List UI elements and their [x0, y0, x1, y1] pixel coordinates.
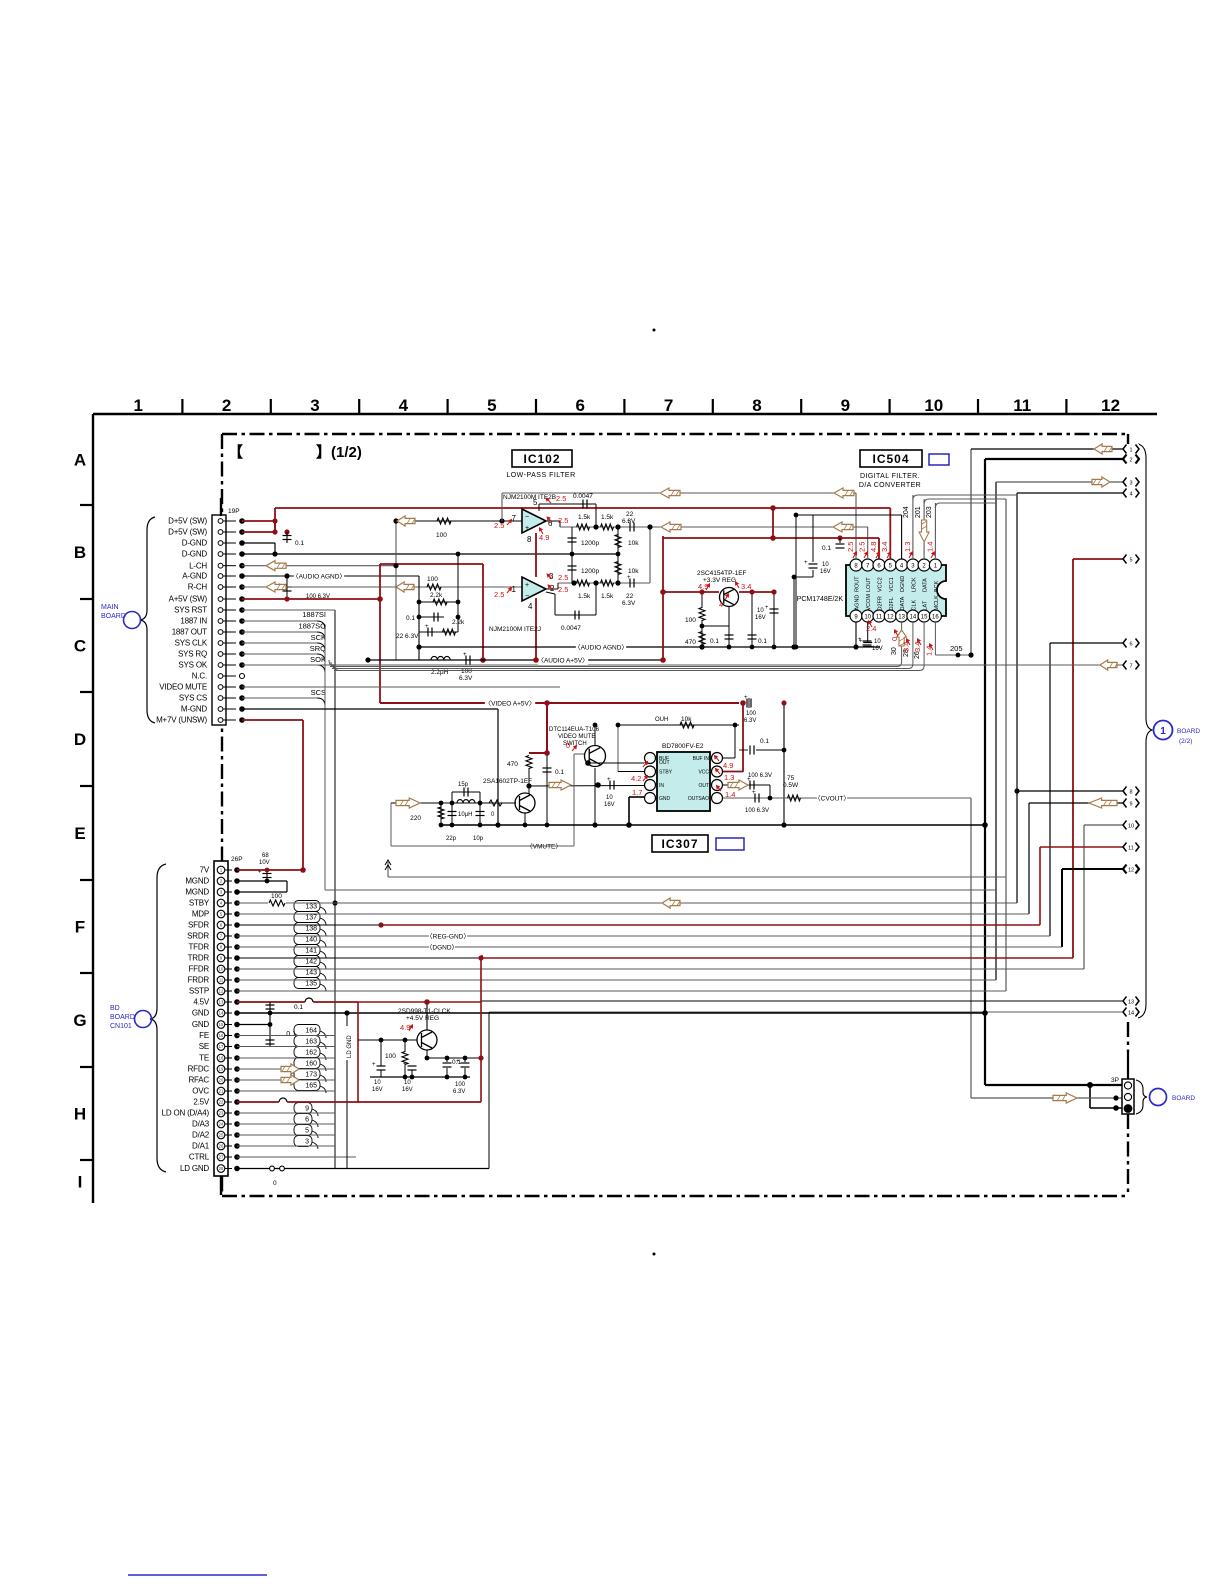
svg-text:0.1: 0.1	[710, 638, 719, 645]
svg-text:204: 204	[903, 506, 910, 518]
wire 0.1 e stub	[751, 592, 753, 647]
IC307 body BD7800FV	[657, 752, 710, 811]
svg-text:1200p: 1200p	[581, 568, 599, 575]
voltage pointer red	[895, 630, 899, 636]
pin circle GND	[217, 1021, 225, 1029]
pin circle OVC	[217, 1087, 225, 1095]
pin junction FRDR	[234, 977, 240, 983]
wire opamp supply red lower	[535, 598, 537, 660]
open junction LD GND	[270, 1166, 275, 1171]
border ruler left line	[92, 414, 94, 1203]
svg-text:11: 11	[1128, 845, 1134, 851]
wire 2.2k b	[419, 631, 458, 633]
net label VMUTE	[526, 841, 562, 851]
svg-text:0.1: 0.1	[555, 769, 564, 776]
wire node SSTP vertical	[1005, 499, 1007, 991]
pin circle LD GND	[217, 1165, 225, 1173]
wire dgnd already	[242, 553, 455, 555]
wire opamp2 to LOUT riser	[649, 527, 651, 583]
svg-text:RFDC: RFDC	[188, 1065, 210, 1074]
wire VMUTE long	[391, 845, 559, 847]
node connector point 7	[1123, 660, 1139, 670]
svg-text:4.8: 4.8	[869, 542, 878, 552]
node connector point 9	[1123, 798, 1139, 808]
junction fb	[593, 524, 598, 529]
pin junction SYS CS	[239, 695, 245, 701]
voltage pointer red	[725, 594, 729, 600]
wire hop 2.5V	[279, 1098, 287, 1104]
svg-text:D2FL: D2FL	[889, 597, 895, 610]
svg-text:+: +	[752, 790, 756, 796]
wire label 140	[294, 934, 326, 948]
svg-text:CLK: CLK	[911, 599, 917, 610]
pin circle D-GND	[218, 552, 223, 557]
svg-text:+: +	[372, 1062, 376, 1068]
wire VCOM stub	[867, 622, 869, 643]
wire loop y890	[325, 889, 996, 891]
svg-text:LAT: LAT	[923, 600, 929, 610]
wire VIDEO A+5V red rail	[380, 702, 739, 704]
pin circle R-CH	[218, 585, 223, 590]
pin circle SYS RQ	[218, 652, 223, 657]
capacitor 10 16V b	[863, 643, 872, 647]
IC307 spare box	[716, 838, 744, 850]
wire agnd cap stub	[286, 576, 288, 599]
pin junction TRDR	[234, 955, 240, 961]
voltage pointer red	[643, 776, 648, 781]
border ruler top line	[93, 413, 1157, 415]
svg-text:0: 0	[273, 1180, 277, 1187]
junction D+5V b	[272, 529, 277, 534]
pin circle FRDR	[217, 976, 225, 984]
wire reg emitter	[426, 1050, 428, 1058]
svg-text:100: 100	[427, 576, 438, 583]
wire SYS RST	[242, 609, 335, 611]
svg-text:10k: 10k	[628, 568, 639, 575]
pin circle TFDR	[217, 943, 225, 951]
junction 3P b	[1113, 1105, 1119, 1111]
pin circle STBY	[217, 899, 225, 907]
wire CLK down 28	[912, 622, 914, 664]
svg-text:100 6.3V: 100 6.3V	[748, 773, 772, 779]
svg-text:1.3: 1.3	[724, 773, 734, 782]
wire node3 vertical	[995, 482, 997, 980]
svg-text:MGND: MGND	[185, 877, 209, 886]
junction GND LDGND	[344, 1010, 349, 1015]
svg-text:4.9: 4.9	[723, 761, 733, 770]
wire dgnd drop	[795, 515, 797, 647]
svg-text:G: G	[73, 1011, 86, 1030]
svg-text:+: +	[403, 1062, 407, 1068]
svg-text:11: 11	[876, 615, 883, 621]
voltage pointer red	[717, 786, 722, 791]
svg-text:16: 16	[219, 1033, 224, 1038]
wire 204 bend	[913, 495, 1017, 500]
svg-text:4: 4	[399, 396, 409, 415]
svg-text:6.3V: 6.3V	[744, 718, 756, 724]
wire red link to 470	[529, 752, 547, 754]
pin circle RFAC	[217, 1076, 225, 1084]
svg-text:1887SO: 1887SO	[298, 622, 326, 631]
transistor Q 2SA1602	[515, 793, 535, 813]
wire node6 horizontal	[1050, 642, 1124, 644]
wire 3P drop vertical	[1089, 1085, 1091, 1108]
junction 10k b	[615, 580, 620, 585]
wire node9 horizontal	[1029, 802, 1124, 804]
wire A+5V red	[242, 598, 380, 600]
wire bend 30	[897, 662, 902, 667]
wire 1200p b stub	[571, 554, 573, 583]
voltage pointer red	[715, 756, 720, 761]
junction fb2	[593, 580, 598, 585]
svg-text:9: 9	[1129, 801, 1132, 807]
wire VCC1 stub red	[889, 508, 891, 559]
pin circle D+5V (SW)	[218, 530, 223, 535]
pin junction FFDR	[234, 966, 240, 972]
junction 7V	[300, 867, 306, 873]
capacitor 100 6.3V	[283, 587, 292, 591]
pin circle M+7V (UNSW)	[218, 718, 223, 723]
wire digital bus c	[334, 670, 919, 672]
svg-text:6.3V: 6.3V	[459, 675, 473, 682]
svg-text:TRDR: TRDR	[188, 954, 210, 963]
svg-text:1.5k: 1.5k	[578, 593, 591, 600]
voltage pointer red	[706, 584, 710, 590]
wire node4 horizontal	[1017, 492, 1124, 494]
pin junction R-CH	[239, 584, 245, 590]
svg-text:10: 10	[219, 967, 224, 972]
pin circle RFDC	[217, 1065, 225, 1073]
wire 7V cap stub	[266, 870, 268, 881]
wire hop 4.5V	[305, 998, 313, 1004]
junction	[699, 644, 704, 649]
pin junction SSTP	[234, 988, 240, 994]
wire OUT chain	[723, 784, 770, 786]
wire 15p loop right	[479, 792, 481, 825]
node connector point 13	[1123, 996, 1139, 1006]
svg-text:GND: GND	[192, 1020, 210, 1029]
svg-text:5: 5	[487, 396, 496, 415]
capacitor 1200p b	[568, 566, 577, 570]
svg-text:8: 8	[527, 535, 532, 544]
svg-text:SSTP: SSTP	[189, 987, 209, 996]
svg-text:CN101: CN101	[110, 1023, 132, 1030]
wire D+5V link red	[274, 521, 276, 532]
capacitor 0.1 reg	[443, 1063, 452, 1067]
svg-text:24: 24	[219, 1122, 224, 1127]
voltage pointer red	[548, 585, 553, 590]
svg-text:26P: 26P	[231, 856, 243, 863]
wire base link	[702, 625, 729, 627]
pin circle 1887 IN	[218, 619, 223, 624]
wire STBY to node4	[286, 902, 1017, 904]
wire red link y564	[380, 563, 483, 565]
wire net right vertical	[457, 554, 459, 632]
ruler tick	[977, 399, 979, 414]
junction 0.1 on red	[837, 535, 842, 540]
wire loop y877	[388, 876, 1006, 878]
svg-text:133: 133	[305, 904, 317, 911]
transistor Q DTC114 mute	[585, 746, 606, 767]
svg-text:SYS OK: SYS OK	[178, 661, 207, 670]
wire bus curve SOK	[317, 665, 325, 673]
wire 203 bend	[935, 503, 996, 508]
wire D+5V riser red	[274, 508, 276, 532]
brace board 2/2	[1138, 444, 1152, 1018]
wire TRDR	[237, 957, 481, 959]
capacitor 100 6.3V d	[750, 781, 754, 790]
junction D+5V cap	[284, 529, 289, 534]
wire mute base	[574, 753, 584, 755]
svg-text:12: 12	[887, 615, 894, 621]
IC307 pin BUF IN circle	[712, 753, 723, 764]
signal arrow ROUT a	[660, 488, 680, 498]
wire 2SA emitter	[524, 813, 526, 825]
main board circle	[124, 612, 141, 629]
svg-text:0.1: 0.1	[294, 1004, 303, 1011]
wire L-CH	[242, 565, 396, 567]
junction gnd	[545, 823, 550, 828]
svg-text:FFDR: FFDR	[188, 965, 209, 974]
wire bus curve SRQ	[317, 654, 325, 662]
resistor 1.5k b	[601, 524, 614, 530]
wire 10k a stub	[617, 527, 619, 554]
svg-text:1.7: 1.7	[632, 788, 642, 797]
pin circle 1887 OUT	[218, 630, 223, 635]
svg-text:RFAC: RFAC	[188, 1076, 209, 1085]
svg-text:OUH: OUH	[655, 717, 668, 723]
pin junction MDP	[234, 911, 240, 917]
svg-text:GND: GND	[659, 796, 671, 802]
wire 0.1 cap b	[419, 616, 444, 618]
pin junction SRDR	[234, 933, 240, 939]
svg-text:6: 6	[1129, 641, 1132, 647]
svg-text:18: 18	[219, 1056, 224, 1061]
wire LD GND net vertical	[346, 1060, 348, 1169]
IC504 pin 15 circle	[918, 610, 930, 622]
junction D+5V	[272, 518, 277, 523]
junction agnd	[791, 644, 796, 649]
wire vcc red rail	[663, 537, 879, 539]
wire vcc red link	[772, 508, 774, 538]
wire VCC red	[723, 771, 743, 773]
IC504 pin 6 circle	[873, 559, 885, 571]
ruler tick	[80, 879, 93, 881]
pin junction LD GND	[234, 1166, 240, 1172]
capacitor 0.1 b	[434, 613, 438, 622]
pin junction 4.5V	[234, 999, 240, 1005]
page mark dot bottom	[653, 1253, 656, 1256]
svg-text:+: +	[525, 582, 529, 589]
IC504 pin 14 circle	[907, 610, 919, 622]
wire D+5V rail to IC504 red	[275, 507, 890, 509]
voltage pointer red	[716, 769, 721, 774]
wire FRDR to node3 vertical	[237, 979, 996, 981]
svg-text:7: 7	[664, 396, 673, 415]
svg-text:OUTSAO: OUTSAO	[688, 796, 709, 802]
wire LD GND	[237, 1168, 489, 1170]
svg-text:17: 17	[219, 1044, 224, 1049]
svg-text:0.0047: 0.0047	[561, 625, 581, 632]
resistor 2.2k b	[443, 629, 456, 635]
pin circle SYS RST	[218, 608, 223, 613]
wire TFDR to node12	[237, 946, 1062, 948]
resistor 100 STBY	[269, 900, 285, 906]
capacitor 10 16V reg1	[377, 1066, 386, 1070]
signal arrow opamp1 out	[397, 516, 415, 526]
wire label 9	[294, 1103, 318, 1117]
node connector point 10	[1123, 820, 1139, 830]
wire node10 FFDR vertical	[1083, 825, 1085, 969]
wire reg output	[427, 1057, 481, 1059]
pin junction SFDR	[234, 922, 240, 928]
transistor Q 2SC4154	[720, 588, 739, 607]
capacitor 10p	[476, 812, 485, 816]
wire 1887 IN	[242, 620, 317, 622]
wire LOUT chain	[560, 526, 868, 528]
pin open N.C.	[240, 674, 245, 679]
wire 0.1 stub	[739, 749, 748, 751]
IC102 label box	[512, 450, 572, 467]
wire node11 SFDR vertical red	[1039, 847, 1041, 925]
pin junction TE	[234, 1055, 240, 1061]
svg-text:205: 205	[950, 644, 963, 653]
svg-text:68: 68	[262, 853, 269, 859]
svg-text:100: 100	[685, 617, 696, 624]
pin circle SYS CS	[218, 696, 223, 701]
ruler tick	[712, 399, 714, 414]
svg-text:BUF IN: BUF IN	[693, 756, 710, 762]
pin circle N.C.	[218, 674, 223, 679]
svg-text:+: +	[765, 605, 769, 611]
ruler tick	[888, 399, 890, 414]
wire video ground rail	[441, 824, 985, 826]
svg-text:100: 100	[455, 1082, 466, 1088]
wire 100 reg stub	[464, 1058, 466, 1062]
wire bus curve 1887SI	[317, 621, 325, 629]
resistor 100 reg	[402, 1052, 408, 1065]
svg-text:2.5: 2.5	[846, 542, 855, 552]
voltage pointer red	[540, 528, 544, 534]
pin circle MDP	[217, 910, 225, 918]
pin circle VIDEO MUTE	[218, 685, 223, 690]
wire digital bus a	[330, 666, 897, 668]
svg-text:BD7800FV-E2: BD7800FV-E2	[662, 743, 704, 750]
svg-text:0.1: 0.1	[295, 540, 304, 547]
pin junction RFDC	[234, 1066, 240, 1072]
svg-text:2.5: 2.5	[556, 494, 566, 503]
wire bus hook a	[329, 660, 336, 667]
svg-text:6: 6	[575, 396, 584, 415]
wire right ground vertical	[783, 703, 785, 825]
svg-text:VCOM: VCOM	[866, 594, 872, 611]
svg-text:+: +	[858, 637, 862, 643]
svg-text:VCC: VCC	[698, 770, 709, 776]
svg-text:11: 11	[219, 978, 224, 983]
IC504 pin 3 circle	[907, 559, 919, 571]
svg-text:M+7V (UNSW): M+7V (UNSW)	[156, 716, 207, 725]
svg-text:0.1: 0.1	[406, 615, 415, 622]
wire node4 STBY vertical	[1016, 493, 1018, 903]
wire red drop	[546, 703, 548, 753]
svg-text:LD GND: LD GND	[180, 1164, 209, 1173]
svg-text:TE: TE	[199, 1054, 209, 1063]
svg-text:30: 30	[891, 647, 898, 655]
resistor 1.5k c	[577, 580, 590, 586]
pin junction LD ON (D/A4)	[234, 1110, 240, 1116]
resistor 10k buf	[680, 722, 694, 728]
svg-text:SCS: SCS	[311, 688, 326, 697]
svg-text:201: 201	[915, 506, 922, 518]
junction red right	[478, 955, 483, 960]
svg-text:SRDR: SRDR	[187, 932, 209, 941]
wire D-GND rail	[242, 553, 618, 555]
svg-text:1.5k: 1.5k	[601, 593, 614, 600]
voltage pointer red	[907, 639, 911, 645]
svg-text:C: C	[74, 637, 86, 656]
open junction LD GND 2	[280, 1166, 285, 1171]
junction agnd pin9	[853, 644, 858, 649]
wire mute collector	[594, 725, 596, 745]
wire 7V red	[237, 869, 303, 871]
svg-text:10μH: 10μH	[458, 812, 472, 818]
wire reg ground rail	[370, 1076, 470, 1078]
svg-text:3: 3	[1129, 480, 1132, 486]
wire D+5V sw2 red	[242, 531, 275, 533]
svg-text:BOARD: BOARD	[110, 1014, 135, 1021]
junction red 3.3V rail	[660, 589, 666, 595]
3P board circle	[1150, 1089, 1167, 1106]
node connector point 12	[1123, 864, 1139, 874]
signal arrow left on STBY run	[662, 898, 680, 908]
net label CVOUT	[814, 793, 850, 803]
junction red supply on rail	[533, 657, 539, 663]
wire DGND stub	[901, 515, 903, 559]
IC504 pin 12 circle	[884, 610, 896, 622]
wire buf loop right	[734, 725, 736, 758]
pin junction SE	[234, 1044, 240, 1050]
svg-text:5: 5	[1129, 557, 1132, 563]
pin circle SYS OK	[218, 663, 223, 668]
svg-text:100: 100	[385, 1053, 396, 1060]
voltage pointer red	[572, 746, 577, 751]
svg-text:H: H	[74, 1105, 86, 1124]
wire SFDR red to node11	[381, 924, 1040, 926]
wire servo row	[237, 1112, 335, 1114]
svg-text:A+5V (SW): A+5V (SW)	[169, 595, 208, 604]
svg-text:10: 10	[374, 1080, 381, 1086]
schematic dash-dot border	[222, 434, 1128, 1196]
wire node3 horizontal	[996, 481, 1124, 483]
svg-text:SE: SE	[199, 1042, 209, 1051]
wire node10 horizontal	[1084, 824, 1124, 826]
capacitor 68 10V	[263, 874, 272, 878]
pin circle A+5V (SW)	[218, 597, 223, 602]
node connector point 6	[1123, 638, 1139, 648]
wire cap chain	[812, 515, 814, 562]
svg-text:FRDR: FRDR	[188, 976, 210, 985]
svg-text:D/A3: D/A3	[192, 1120, 210, 1129]
svg-text:1.3: 1.3	[903, 542, 912, 552]
wire SYS OK to node7	[242, 664, 1124, 666]
IC504 pin 5 circle	[884, 559, 896, 571]
3P pin 3 circle	[1124, 1105, 1132, 1113]
wire ecap2 stub	[411, 1070, 413, 1077]
pin junction TFDR	[234, 944, 240, 950]
IC307 pin VCC circle	[712, 766, 723, 777]
node connector point 2	[1123, 454, 1139, 464]
svg-text:2SD998-T1-CLCK: 2SD998-T1-CLCK	[398, 1008, 451, 1015]
